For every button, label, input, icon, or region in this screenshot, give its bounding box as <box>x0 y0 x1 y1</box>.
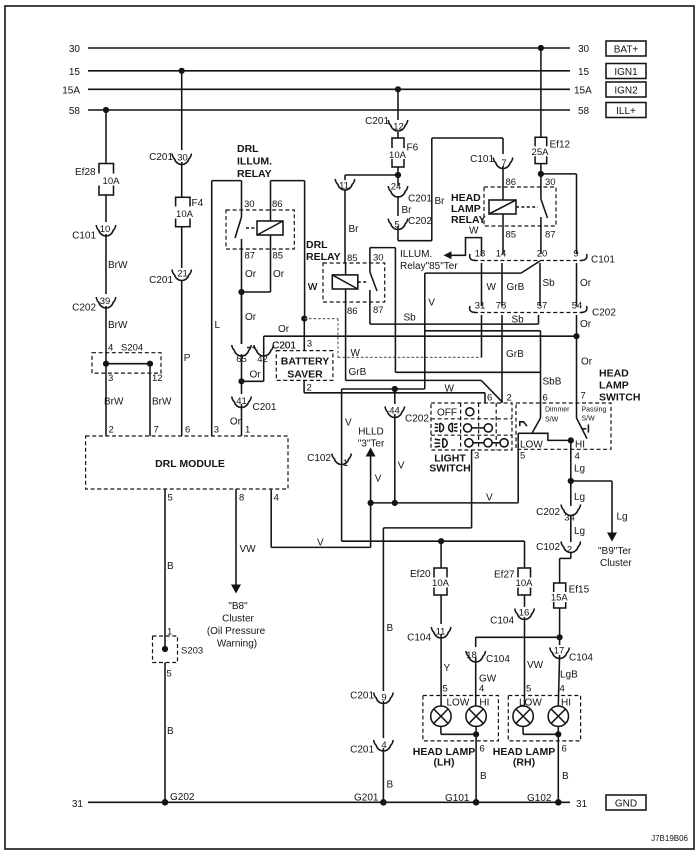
wire Br: C201-24 to C202-5 <box>398 196 412 216</box>
connector C201 pin 11 <box>335 179 355 192</box>
connector C102 pin 2 <box>536 542 581 556</box>
svg-text:BrW: BrW <box>108 260 128 271</box>
DRL relay coil <box>332 263 358 302</box>
connector C104 pin 18 <box>466 650 510 665</box>
svg-text:Or: Or <box>580 319 592 330</box>
wire VW: DRL module pin 8 arrow to cluster <box>231 489 256 594</box>
svg-text:20: 20 <box>537 249 548 260</box>
svg-text:HI: HI <box>575 440 585 451</box>
svg-text:C102: C102 <box>536 542 560 553</box>
ground node G202 <box>162 792 195 806</box>
wire W: C202-31 down to dashed W wire <box>481 315 483 357</box>
svg-text:B: B <box>387 780 394 791</box>
svg-text:F6: F6 <box>407 143 419 154</box>
wire V: diagonal from C101-20 down-left then long vertical to junction y=389 <box>425 261 540 389</box>
svg-text:30: 30 <box>373 253 384 264</box>
svg-text:VW: VW <box>240 544 257 555</box>
wire Y: C104-11 to LH head lamp LOW pin 5 <box>441 634 450 706</box>
svg-text:BAT+: BAT+ <box>614 45 639 56</box>
svg-text:15: 15 <box>69 67 81 78</box>
DRL relay switch blade <box>358 263 377 302</box>
wire Sb: DRL relay 87 down right to C202-57 <box>370 302 539 326</box>
wire B: RH lamp to ground G102 <box>558 734 569 802</box>
svg-text:BrW: BrW <box>104 397 124 408</box>
svg-text:57: 57 <box>537 301 548 312</box>
svg-text:39: 39 <box>100 296 111 307</box>
junction Lg branch <box>568 478 574 484</box>
svg-text:C201: C201 <box>149 275 173 286</box>
connector C104 pin 11 <box>407 627 451 644</box>
wire V: DRL module pin 4 down right and up to LOW junction <box>271 489 370 549</box>
connector C101 pin 7 <box>470 154 513 169</box>
terminal box ILL+ <box>606 103 646 118</box>
lamp HEAD LAMP (LH) box <box>423 696 499 741</box>
svg-text:86: 86 <box>272 199 283 210</box>
svg-text:B: B <box>387 623 394 634</box>
svg-text:10: 10 <box>100 224 111 235</box>
svg-text:Or: Or <box>278 324 290 335</box>
svg-text:GND: GND <box>615 799 637 810</box>
svg-text:10A: 10A <box>176 209 194 220</box>
svg-text:OFF: OFF <box>437 408 457 419</box>
connector C101 pin 10 <box>72 224 116 242</box>
RH HI bulb <box>548 706 568 726</box>
svg-text:2: 2 <box>507 393 512 404</box>
svg-text:Dimmer: Dimmer <box>545 407 570 414</box>
RH LOW bulb <box>513 706 533 726</box>
wire V: branch right to dimmer pin 6 vertical <box>425 331 548 404</box>
svg-text:GrB: GrB <box>349 367 367 378</box>
node label HLLD "3" Ter <box>358 427 385 450</box>
wire: Ef20 to C104-11 <box>440 595 442 624</box>
svg-text:C101: C101 <box>591 255 615 266</box>
svg-text:15: 15 <box>578 67 590 78</box>
svg-text:"B8": "B8" <box>228 601 248 612</box>
bus 15A (IGN2) <box>62 86 592 97</box>
svg-text:SWITCH: SWITCH <box>429 463 470 475</box>
svg-text:30: 30 <box>69 44 81 55</box>
wire: feed down to fuse Ef27 <box>524 541 526 568</box>
connector C102 pin 1 <box>307 453 351 469</box>
svg-text:L: L <box>215 320 221 331</box>
svg-text:G202: G202 <box>170 792 195 803</box>
wire GW: C104-18 to LH head lamp HI pin 4 <box>476 657 497 706</box>
svg-text:GrB: GrB <box>506 349 524 360</box>
wire: feed down to fuse Ef20 <box>440 541 442 568</box>
wire Or: C201-65 down to junction at y=381.3 <box>238 354 261 384</box>
svg-text:LOW: LOW <box>520 440 543 451</box>
ILLUM relay switch blade <box>235 217 257 249</box>
wire: bus58 down to fuse Ef28 (x=106) <box>103 107 109 164</box>
svg-text:15A: 15A <box>62 86 80 97</box>
bus 30 (BAT+) <box>69 44 590 55</box>
light switch contact circle row OFF <box>466 408 474 416</box>
svg-text:LgB: LgB <box>560 670 578 681</box>
svg-text:Sb: Sb <box>543 278 556 289</box>
wire V: horizontal y=389 with junction to C202-44 <box>342 386 425 541</box>
svg-text:4: 4 <box>274 493 279 504</box>
svg-text:RELAY: RELAY <box>451 214 486 226</box>
svg-text:85: 85 <box>347 253 358 264</box>
wire: C201-12 to fuse F6 <box>397 132 399 138</box>
svg-text:6: 6 <box>562 744 567 755</box>
svg-text:1: 1 <box>245 425 250 436</box>
svg-text:P: P <box>184 353 191 364</box>
svg-text:78: 78 <box>496 301 507 312</box>
wire W: battery saver pin 2 down right to light switch pin 6 <box>304 380 492 403</box>
svg-text:HLLD: HLLD <box>358 427 384 438</box>
svg-text:C202: C202 <box>72 303 96 314</box>
svg-text:C201: C201 <box>408 194 432 205</box>
wire BrW: S204-12 to DRL module pin 7 <box>150 364 172 436</box>
connector C202 pin 44 <box>385 406 429 425</box>
wire Or: C101-9 to C202-54 to head lamp switch pin 7 <box>573 263 592 403</box>
svg-text:SAVER: SAVER <box>287 369 323 381</box>
svg-text:2: 2 <box>307 383 312 394</box>
wire: F6 to junction at y=175 <box>395 167 401 178</box>
passing switch blade <box>575 403 588 451</box>
svg-text:87: 87 <box>545 230 556 241</box>
svg-text:86: 86 <box>347 306 358 317</box>
svg-text:30: 30 <box>244 199 255 210</box>
label DRL ILLUM. RELAY <box>237 143 272 180</box>
wire: C201-9 to C201-4 <box>382 701 384 738</box>
svg-text:58: 58 <box>578 106 590 117</box>
svg-text:Warning): Warning) <box>217 639 257 650</box>
svg-text:7: 7 <box>501 158 506 169</box>
svg-text:C201: C201 <box>350 745 374 756</box>
svg-text:3: 3 <box>108 373 113 384</box>
svg-text:"3"Ter: "3"Ter <box>358 439 385 450</box>
light switch contact circles row head <box>465 439 508 447</box>
svg-text:31: 31 <box>475 301 486 312</box>
RH lamp common wire to pin 6 <box>523 726 567 754</box>
svg-text:C104: C104 <box>486 654 510 665</box>
svg-text:Passing: Passing <box>582 407 607 414</box>
svg-text:B: B <box>167 726 174 737</box>
svg-text:4: 4 <box>560 684 565 695</box>
svg-text:Y: Y <box>444 663 451 674</box>
wire SbB: right to dimmer switch pin 6 <box>395 372 561 387</box>
svg-text:RELAY: RELAY <box>306 251 341 263</box>
svg-text:Br: Br <box>402 205 413 216</box>
connector C201 pin 30 <box>149 152 191 164</box>
svg-text:8: 8 <box>239 493 244 504</box>
svg-text:Lg: Lg <box>617 512 628 523</box>
svg-text:C202: C202 <box>592 308 616 319</box>
connector C202 pin 39 <box>72 296 116 314</box>
bus 58 (ILL+) <box>69 106 590 117</box>
svg-text:B: B <box>480 771 487 782</box>
svg-text:Or: Or <box>273 269 285 280</box>
connector C104 pin 16 <box>490 608 534 627</box>
wire W: C101-18 to C202-31 <box>482 263 497 306</box>
svg-text:C201: C201 <box>149 152 173 163</box>
bus 15 (IGN1) <box>69 67 590 78</box>
svg-text:V: V <box>345 418 352 429</box>
wire: bus15A down to connector C201-12 (x=398) <box>395 86 401 120</box>
svg-text:58: 58 <box>69 106 81 117</box>
wire: F4 to connector C201-21 <box>181 227 183 268</box>
wire Lg: branch right down arrow to B9 cluster <box>571 481 628 542</box>
wire: C101-7 to head lamp relay coil 86 <box>503 166 516 200</box>
wire L: bracket from ILLUM relay pin 30 to DRL module pin 3 <box>212 181 242 436</box>
wire: junction left to C104-18 <box>476 637 560 647</box>
label HEAD LAMP RELAY <box>451 192 486 226</box>
svg-text:S/W: S/W <box>545 417 559 424</box>
wire: DRL relay 30 bracket up-right to SbB feed <box>370 248 396 373</box>
wire Or: junction right then down to C101-9 <box>541 174 592 289</box>
wire B: C201-4 to ground G201 <box>383 748 393 802</box>
connector C201 pin 4 <box>350 740 393 756</box>
head lamp relay coil <box>489 200 516 254</box>
svg-text:31: 31 <box>576 799 588 810</box>
relay DRL ILLUM. RELAY box <box>226 199 294 262</box>
svg-text:W: W <box>445 384 455 395</box>
svg-text:25A: 25A <box>532 147 550 158</box>
svg-text:LAMP: LAMP <box>599 380 629 392</box>
wire BrW: S204-3 to DRL module pin 2 <box>104 364 124 436</box>
svg-text:17: 17 <box>554 646 565 657</box>
svg-text:7: 7 <box>581 391 586 402</box>
switch DIMMER/PASSING box <box>516 403 611 449</box>
DRL MODULE box <box>86 436 288 489</box>
wire BrW: C202-39 to splice S204 pin 4 <box>106 306 128 364</box>
svg-text:G102: G102 <box>527 793 552 804</box>
svg-text:G201: G201 <box>354 793 379 804</box>
wire LgB: C104-17 to RH head lamp HI pin 4 <box>558 655 578 706</box>
label DRL RELAY <box>306 239 341 263</box>
wire BrW: C101-10 to C202-39 <box>106 234 128 294</box>
svg-text:6: 6 <box>185 425 190 436</box>
node label "B8" Cluster (Oil Pressure Warning) <box>207 601 266 650</box>
relay HEAD LAMP RELAY box <box>484 187 556 226</box>
svg-text:10A: 10A <box>103 176 121 187</box>
svg-text:Sb: Sb <box>512 315 525 326</box>
svg-text:Cluster: Cluster <box>222 614 254 625</box>
svg-text:W: W <box>308 282 318 293</box>
svg-text:C101: C101 <box>72 231 96 242</box>
svg-text:B: B <box>167 561 174 572</box>
svg-text:IGN1: IGN1 <box>614 67 638 78</box>
wire: ILLUM relay pin 30 stub <box>241 181 243 217</box>
wire Br: C202-5 down, right, up and over to C101-7 <box>398 138 503 241</box>
svg-text:(Oil Pressure: (Oil Pressure <box>207 626 266 637</box>
svg-text:10A: 10A <box>432 578 450 589</box>
splice S204 <box>92 343 163 385</box>
svg-text:5: 5 <box>520 451 525 462</box>
fuse F4 10A <box>171 197 204 226</box>
svg-text:Or: Or <box>230 417 242 428</box>
fuse Ef20 10A <box>410 568 451 595</box>
wire: bus15 down to connector C201-30 (x=181.7) <box>179 68 185 150</box>
junction HI output <box>568 437 574 443</box>
connector C201 pins 65 / 42 <box>232 341 297 366</box>
wire V: HLLD arrow branch up <box>366 448 382 503</box>
svg-text:SWITCH: SWITCH <box>599 392 640 404</box>
wire W zigzag: arrow to ILLUM. Relay "85" Ter from C101-18 <box>444 226 482 260</box>
svg-text:ILL+: ILL+ <box>616 106 636 117</box>
svg-text:85: 85 <box>273 251 284 262</box>
svg-text:C104: C104 <box>490 616 514 627</box>
svg-text:11: 11 <box>339 181 349 192</box>
wire: DRL module pin 5 down to S203 <box>165 489 174 649</box>
svg-text:BrW: BrW <box>108 320 128 331</box>
svg-text:C201: C201 <box>350 691 374 702</box>
svg-text:Lg: Lg <box>574 464 585 475</box>
svg-text:C202: C202 <box>405 414 429 425</box>
light switch headlamp icon <box>434 439 447 448</box>
svg-text:Or: Or <box>245 312 257 323</box>
wire Or: junction down to connector C201-41 <box>241 381 243 394</box>
connector C201 pin 21 <box>149 269 191 287</box>
svg-text:6: 6 <box>543 393 548 404</box>
svg-text:16: 16 <box>519 608 530 619</box>
svg-text:BATTERY: BATTERY <box>281 356 329 368</box>
svg-text:1: 1 <box>343 458 348 469</box>
svg-text:C202: C202 <box>536 507 560 518</box>
svg-text:Ef20: Ef20 <box>410 569 431 580</box>
wire Lg: junction down to C202-34 <box>571 481 585 506</box>
svg-text:Lg: Lg <box>574 526 585 537</box>
wire Or: C201-42 branch up and right to head lamp switch <box>264 324 577 354</box>
terminal box GND <box>606 795 646 810</box>
svg-text:F4: F4 <box>192 198 204 209</box>
svg-text:C104: C104 <box>407 633 431 644</box>
svg-text:RELAY: RELAY <box>237 168 272 180</box>
svg-text:34: 34 <box>564 513 575 524</box>
svg-text:ILLUM.: ILLUM. <box>400 249 432 260</box>
wire V: C102-1 line down to fuse feed line <box>342 538 525 544</box>
svg-text:C102: C102 <box>307 453 331 464</box>
wire Lg: C202-34 to C102-2 <box>571 516 585 542</box>
svg-text:Or: Or <box>580 278 592 289</box>
terminal box IGN1 <box>606 64 646 79</box>
svg-text:21: 21 <box>177 269 188 280</box>
svg-text:GrB: GrB <box>507 282 525 293</box>
relay DRL RELAY box <box>308 253 385 318</box>
splice S203 <box>153 636 204 680</box>
svg-text:Ef27: Ef27 <box>494 570 515 581</box>
svg-text:Br: Br <box>349 224 360 235</box>
connector C201 pin 24 <box>388 182 432 205</box>
svg-text:15A: 15A <box>574 86 592 97</box>
node label "B9" Ter Cluster <box>598 546 632 569</box>
svg-text:30: 30 <box>177 153 188 164</box>
wire W (dashed): from junction at ILLUM 86 wire to C202-31 wire <box>301 316 481 360</box>
label HEAD LAMP SWITCH <box>599 368 640 404</box>
wire GrB: C101-14 through C202-78 to light switch pin 2 <box>502 263 525 403</box>
svg-text:LOW: LOW <box>519 698 542 709</box>
svg-text:6: 6 <box>487 393 492 404</box>
svg-text:5: 5 <box>526 684 531 695</box>
svg-text:DRL: DRL <box>237 143 259 155</box>
svg-text:(RH): (RH) <box>513 757 535 769</box>
junction LOW line left corner <box>368 500 374 506</box>
connector C104 pin 17 <box>550 646 594 664</box>
ground node G201 <box>354 793 387 806</box>
svg-text:Ef28: Ef28 <box>75 167 96 178</box>
wire VW: C104-16 to RH head lamp LOW pin 5 <box>525 617 544 706</box>
svg-text:4: 4 <box>108 343 113 354</box>
connector C201 pin 41 <box>232 396 277 413</box>
node label ILLUM. Relay "85" Ter <box>400 249 458 272</box>
svg-text:6: 6 <box>479 744 484 755</box>
wire: junction down to battery saver pin 3 <box>272 319 312 352</box>
svg-text:DRL MODULE: DRL MODULE <box>155 458 225 470</box>
head lamp relay switch blade <box>516 187 556 254</box>
svg-text:Lg: Lg <box>574 492 585 503</box>
label HEAD LAMP (RH) <box>493 746 555 769</box>
wire: Ef27 to C104-16 <box>524 595 526 607</box>
wire: C102-2 jog left down to fuse Ef15 <box>560 552 571 583</box>
connector C201 pin 9 <box>350 691 393 704</box>
svg-text:W: W <box>351 348 361 359</box>
light switch park lamps icon <box>435 423 458 432</box>
connector row C101 pins 18 14 20 9 <box>470 249 616 266</box>
junction on Or wire at y=292 <box>238 289 244 295</box>
wire B: LH lamp to ground G101 <box>476 734 487 802</box>
wire B: S203 to ground G202 <box>165 663 174 803</box>
svg-text:10A: 10A <box>389 150 407 161</box>
svg-text:C201: C201 <box>272 341 296 352</box>
wire P: C201-21 to DRL module pin 6 <box>182 280 191 436</box>
svg-text:5: 5 <box>443 684 448 695</box>
svg-text:2: 2 <box>109 425 114 436</box>
svg-text:C101: C101 <box>470 154 494 165</box>
svg-text:S203: S203 <box>181 646 203 657</box>
svg-text:V: V <box>317 538 324 549</box>
svg-text:B: B <box>562 771 569 782</box>
LH HI bulb <box>466 706 486 726</box>
svg-text:4: 4 <box>479 684 484 695</box>
svg-text:30: 30 <box>578 44 590 55</box>
label HEAD LAMP (LH) <box>413 746 475 769</box>
connector C202 pin 34 <box>536 505 581 524</box>
connector row C202 pins 31 78 57 54 <box>470 301 617 319</box>
LH lamp common wire to pin 6 <box>441 726 485 754</box>
svg-text:DRL: DRL <box>306 239 328 251</box>
wire Br: C201-11 to DRL relay coil 85 <box>345 190 359 263</box>
light switch contact circles row park <box>464 424 493 432</box>
svg-text:(LH): (LH) <box>434 757 455 769</box>
svg-text:W: W <box>487 282 497 293</box>
svg-text:87: 87 <box>245 251 256 262</box>
svg-text:S204: S204 <box>121 343 143 354</box>
svg-text:V: V <box>375 474 382 485</box>
wire Or: junction down to connector C201-65 <box>242 292 257 344</box>
connector C201 pin 12 <box>365 116 408 133</box>
svg-text:9: 9 <box>573 249 578 260</box>
svg-text:4: 4 <box>575 451 580 462</box>
svg-text:30: 30 <box>545 177 556 188</box>
wire Or: C201-41 to DRL module pin 1 <box>230 404 250 436</box>
wire: LOW line to dimmer pin 5 <box>371 433 519 503</box>
ground node G102 <box>527 793 562 806</box>
svg-text:C201: C201 <box>365 116 389 127</box>
switch LIGHT SWITCH box <box>431 403 512 450</box>
svg-text:IGN2: IGN2 <box>614 86 638 97</box>
svg-text:10A: 10A <box>516 578 534 589</box>
svg-text:Sb: Sb <box>404 313 417 324</box>
dimmer switch blade and LOW contact <box>518 403 571 462</box>
svg-text:V: V <box>428 298 435 309</box>
svg-text:87: 87 <box>373 305 384 316</box>
svg-text:V: V <box>486 493 493 504</box>
svg-text:G101: G101 <box>445 793 470 804</box>
svg-text:14: 14 <box>496 249 507 260</box>
svg-text:Or: Or <box>250 370 262 381</box>
